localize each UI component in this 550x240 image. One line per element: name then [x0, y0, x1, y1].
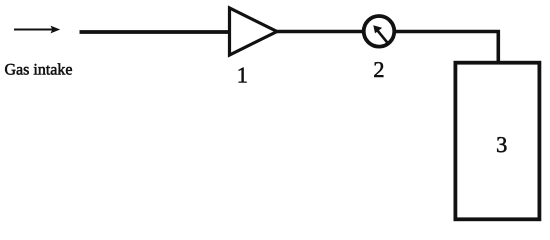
label 1	[239, 68, 247, 83]
gauge needle	[373, 25, 388, 44]
wire from gauge to corner	[394, 30, 500, 34]
tank 3 (rectangle)	[455, 63, 539, 220]
wire from compressor to gauge	[276, 30, 364, 34]
label 2	[374, 62, 383, 77]
gauge 2 (circle)	[364, 16, 395, 47]
label 3	[497, 137, 506, 152]
gas intake arrow	[14, 26, 60, 34]
label Gas intake	[5, 63, 72, 74]
wire from intake to compressor	[80, 30, 232, 34]
compressor 1 (triangle)	[230, 8, 278, 55]
vertical wire down to tank	[496, 30, 500, 63]
